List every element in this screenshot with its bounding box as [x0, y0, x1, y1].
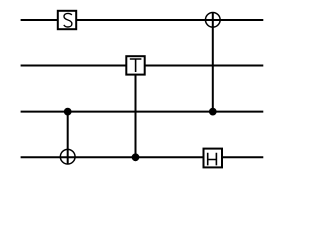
- node CNOT-B control dot on q2: [64, 108, 72, 116]
- gate H on q3: [204, 149, 223, 168]
- wire q1: [21, 65, 264, 67]
- gate S on q0: [58, 11, 76, 29]
- wire q3 (bottom qubit line): [21, 156, 264, 158]
- wire q2: [21, 111, 264, 113]
- wire controlled-T vertical (T-gate q1 to control q3): [135, 76, 137, 158]
- node CNOT-A control dot on q2: [209, 108, 217, 116]
- node CNOT-A target circle on q0: [205, 12, 220, 27]
- gate T on q1: [126, 56, 144, 74]
- wire CNOT-B vertical (control q2, target q3): [67, 112, 69, 165]
- wire CNOT-A vertical (target q0, control q2): [212, 12, 214, 111]
- node control dot on q3: [132, 153, 140, 161]
- wire q0 (top qubit line): [21, 19, 264, 21]
- node CNOT-B target circle on q3: [60, 149, 75, 164]
